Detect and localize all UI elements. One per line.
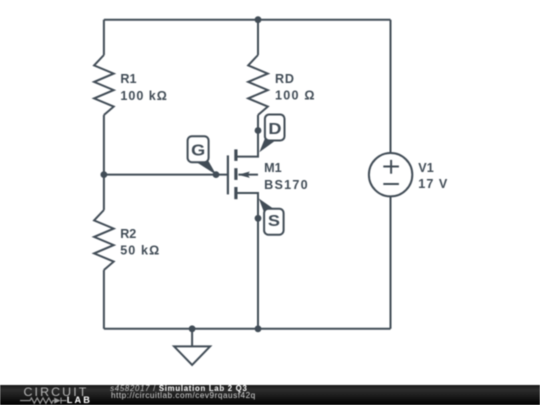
transistor M1 (NMOS BS170)	[228, 149, 258, 199]
footer url text	[111, 392, 256, 400]
svg-text:G: G	[191, 142, 205, 159]
svg-text:100 kΩ: 100 kΩ	[120, 89, 166, 103]
node dot drain D	[255, 127, 262, 134]
channel bar source segment of M1	[234, 187, 237, 199]
svg-text:V1: V1	[418, 161, 433, 175]
wire RD branch upper (top rail to RD)	[257, 20, 259, 55]
footer bar	[0, 385, 540, 405]
svg-text:RD: RD	[275, 72, 294, 86]
junction dot bottom rail / ground	[189, 325, 196, 332]
wire bottom rail	[104, 328, 391, 330]
wire mid rail to gate	[104, 174, 228, 176]
CircuitLab logo LAB	[67, 396, 92, 404]
CircuitLab logo wordmark	[24, 387, 89, 397]
node flag D	[259, 115, 284, 153]
wire top rail	[104, 19, 391, 21]
node flag G	[188, 136, 217, 175]
wire RD to drain	[237, 115, 258, 157]
wire left rail middle (R1 to R2)	[103, 115, 105, 210]
voltage source V1	[369, 153, 412, 196]
wire left rail upper (top rail to R1)	[103, 20, 105, 55]
svg-text:BS170: BS170	[264, 178, 308, 192]
resistor RD	[248, 55, 268, 115]
svg-text:100 Ω: 100 Ω	[275, 89, 315, 103]
resistor R1	[94, 55, 114, 115]
junction dot bottom rail / source	[255, 325, 262, 332]
ground	[174, 329, 210, 365]
channel bar drain segment of M1	[234, 149, 237, 161]
wire source to bottom rail	[237, 193, 258, 329]
footer title text	[110, 385, 247, 393]
svg-text:D: D	[268, 120, 281, 137]
bulk arrow of M1	[238, 172, 250, 178]
svg-text:17 V: 17 V	[418, 177, 448, 191]
svg-text:50 kΩ: 50 kΩ	[120, 244, 159, 258]
CircuitLab logo schematic doodle (resistor + diode)	[20, 396, 68, 405]
node dot source S	[255, 215, 262, 222]
channel bar body segment of M1	[234, 168, 237, 180]
svg-text:R1: R1	[120, 72, 136, 86]
svg-text:R2: R2	[120, 227, 136, 241]
bulk wire of M1	[238, 174, 258, 176]
wire V1 upper (top rail to V1)	[390, 20, 392, 154]
node flag S	[259, 199, 284, 235]
node dot gate G	[213, 171, 220, 178]
gate bar of M1	[227, 155, 229, 194]
wire left rail lower (R2 to bottom rail)	[103, 270, 105, 329]
wire V1 lower (V1 to bottom rail)	[390, 196, 392, 328]
junction dot top rail / RD	[255, 16, 262, 23]
svg-text:S: S	[268, 212, 280, 229]
resistor R2	[94, 210, 114, 270]
svg-text:M1: M1	[264, 161, 282, 175]
junction dot left rail / mid rail	[101, 171, 108, 178]
